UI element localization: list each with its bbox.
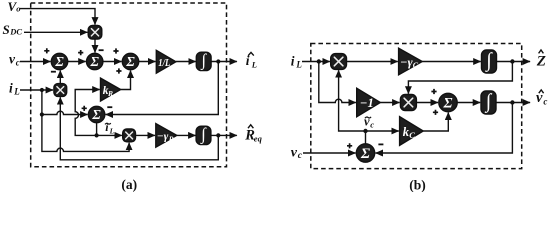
gain block kC: [400, 117, 424, 146]
wire iL branch down right to gain -1 (hop over x338.6): [319, 62, 356, 103]
svg-text:DC: DC: [9, 27, 22, 37]
sign plus at SC left input: [113, 48, 118, 53]
sign plus at SF left input: [347, 143, 352, 148]
wire iL branch down and right to multiplier X3 bottom (hop over x60.3): [42, 90, 129, 151]
wire vc-tilde to gain kC: [366, 130, 399, 132]
svg-text:C: C: [409, 130, 415, 140]
hat accent over Req-hat: [248, 125, 253, 128]
wire SDC to multiplier X1 left: [24, 31, 87, 33]
wire vc-tilde left and up into XB1 bottom: [339, 70, 366, 131]
wire I2 output exiting box to Req-hat: [211, 134, 237, 136]
summer SF (vc-tilde): [356, 144, 374, 162]
svg-text:Σ: Σ: [125, 54, 135, 69]
svg-text:R: R: [168, 135, 174, 144]
svg-text:L: L: [13, 87, 20, 97]
node junction on iL line: [40, 88, 44, 92]
node junction on Z-hat output: [510, 59, 514, 63]
node iL-tilde label: [105, 120, 114, 135]
node junction iL to SD plus input: [40, 112, 44, 116]
svg-text:c: c: [298, 151, 303, 161]
summer SD (iL-tilde): [88, 106, 104, 122]
node Req-hat output label: [244, 127, 262, 143]
hat accent over iL-hat: [248, 52, 254, 55]
wire iL branch to summer SD left (hop over x60.3): [42, 111, 88, 114]
sign plus at SA left input: [44, 48, 49, 53]
wire XB1 to gain -gammaC: [347, 61, 398, 63]
svg-text:(b): (b): [409, 178, 426, 192]
svg-text:v: v: [291, 145, 298, 160]
tilde accent over vc-tilde: [365, 117, 371, 118]
node vc-hat output label: [536, 90, 547, 106]
multiplier X1 (Vo x SDC): [88, 26, 102, 40]
svg-text:1/L: 1/L: [158, 57, 170, 69]
wire SE to integrator IB2: [457, 102, 480, 104]
svg-text:−γ: −γ: [157, 131, 169, 143]
wire iL-tilde to multiplier X3 left: [97, 134, 122, 136]
node iL-hat output label: [246, 53, 257, 69]
wire IB2 output exiting box to vc-hat: [496, 102, 530, 104]
tilde accent over iL-tilde: [105, 123, 111, 124]
svg-text:−γ: −γ: [400, 55, 413, 69]
wire vc to summer SF left: [303, 152, 356, 154]
svg-text:Σ: Σ: [360, 146, 370, 162]
wire SB output to summer SC left: [103, 61, 122, 63]
svg-text:L: L: [109, 126, 115, 135]
wire -1 to multiplier XB2 left: [380, 102, 399, 104]
svg-text:Z: Z: [536, 54, 546, 70]
wire XB2 to summer SE left: [416, 102, 438, 104]
wire iL-tilde left and up to gain kR (hop over y114.5): [75, 90, 100, 136]
wire iL to multiplier XB1 left: [302, 61, 330, 63]
wire -gammaC to integrator IB1: [422, 61, 481, 63]
sign plus at SC bottom input: [116, 68, 121, 73]
svg-text:L: L: [295, 60, 302, 70]
node junction on iL line (b): [317, 59, 321, 63]
wire SC output to gain 1/L: [139, 61, 156, 63]
svg-text:Σ: Σ: [54, 54, 64, 69]
wire Z-hat feedback down left into XB2 top: [408, 62, 512, 94]
gain block -gammaC: [399, 48, 423, 75]
node vc input label (b): [291, 145, 303, 161]
svg-text:i: i: [291, 53, 295, 68]
wire 1/L to integrator I1: [176, 61, 196, 63]
node vc input label: [9, 51, 20, 67]
dashed observer boundary box (b): [311, 44, 522, 169]
sign minus at SF right input: [378, 143, 383, 145]
wire X3 to gain -gammaR: [136, 134, 156, 136]
multiplier X2 (iL x Req-hat): [54, 84, 67, 97]
wire vc-hat feedback down and left into summer SF right: [376, 103, 513, 154]
hat accent over vc-hat: [539, 90, 544, 93]
multiplier XB1 (iL x vc-tilde): [331, 54, 347, 70]
sign plus at SB left input: [78, 50, 83, 55]
svg-text:o: o: [16, 4, 20, 14]
node Z-hat output label: [536, 54, 546, 70]
svg-text:Σ: Σ: [90, 54, 100, 69]
node junction on iL-hat output: [216, 59, 220, 63]
svg-text:c: c: [543, 97, 547, 107]
summer SC: [122, 53, 138, 69]
node iL input label: [9, 80, 20, 96]
svg-text:i: i: [9, 80, 13, 95]
svg-text:Σ: Σ: [91, 107, 101, 122]
multiplier X3 (iL-tilde x iL): [123, 129, 136, 142]
summer SA: [51, 53, 67, 69]
svg-text:R: R: [107, 89, 113, 98]
svg-text:−1: −1: [360, 96, 374, 110]
wire kC output to SE bottom: [423, 113, 448, 132]
integrator I1: [196, 50, 211, 70]
node junction on Req-hat output: [216, 133, 220, 137]
svg-text:L: L: [251, 59, 257, 69]
gain block -1: [357, 88, 381, 117]
wire iL to multiplier X2 left: [20, 89, 53, 91]
gain block -gammaR: [156, 124, 177, 148]
node SDC input label: [3, 22, 23, 37]
wire -gammaR to integrator I2: [177, 134, 196, 136]
sign minus at SB top input: [99, 49, 104, 51]
wire kR output to SC bottom: [121, 71, 131, 90]
wire iL-hat feedback down and left into summer SD right: [106, 62, 219, 115]
hat accent over Z-hat: [539, 50, 544, 53]
sign plus at SD left input: [82, 106, 87, 111]
wire SA output to summer SB left: [68, 61, 86, 63]
wire IB1 output exiting box to Z-hat: [497, 61, 531, 63]
sign minus at SD right input: [107, 106, 112, 108]
wire SD output down to bottom node: [96, 123, 98, 136]
node junction iL-tilde: [95, 133, 99, 137]
svg-text:eq: eq: [254, 133, 263, 143]
svg-text:S: S: [3, 22, 10, 37]
multiplier XB2 (-vc-tilde x Z-hat): [400, 95, 416, 111]
node Vo input label: [8, 0, 21, 14]
sign plus at SE left input: [431, 89, 436, 94]
gain block kR: [101, 78, 121, 101]
summer SE: [439, 93, 457, 111]
svg-text:Σ: Σ: [443, 95, 453, 111]
wire X1 output down to summer SB top: [94, 39, 96, 52]
sign minus at SA bottom input: [51, 71, 56, 73]
wire Vo to multiplier X1 top: [20, 9, 95, 25]
sign plus at SE bottom input: [433, 110, 438, 115]
integrator I2: [196, 124, 211, 144]
wire X2 output up to SA bottom: [59, 71, 61, 84]
node junction vc-tilde: [363, 129, 367, 133]
svg-text:c: c: [370, 119, 374, 129]
svg-text:C: C: [413, 61, 419, 70]
dashed observer boundary box (a): [31, 3, 227, 167]
node iL input label (b): [291, 53, 303, 69]
wire I1 output exiting box to iL-hat: [211, 61, 237, 63]
wire vc to summer SA left: [20, 61, 51, 63]
summer SB: [87, 53, 103, 69]
svg-text:(a): (a): [121, 177, 137, 192]
gain block 1/L: [156, 50, 176, 73]
node junction on vc-hat output: [510, 100, 514, 104]
wire Req-hat feedback down left and up into X2 bottom: [60, 97, 218, 160]
integrator IB2: [481, 90, 496, 114]
svg-text:c: c: [16, 57, 20, 67]
integrator IB1: [482, 49, 497, 73]
wire SF output up to vc-tilde node: [365, 131, 367, 144]
node vc-tilde label: [364, 114, 374, 129]
